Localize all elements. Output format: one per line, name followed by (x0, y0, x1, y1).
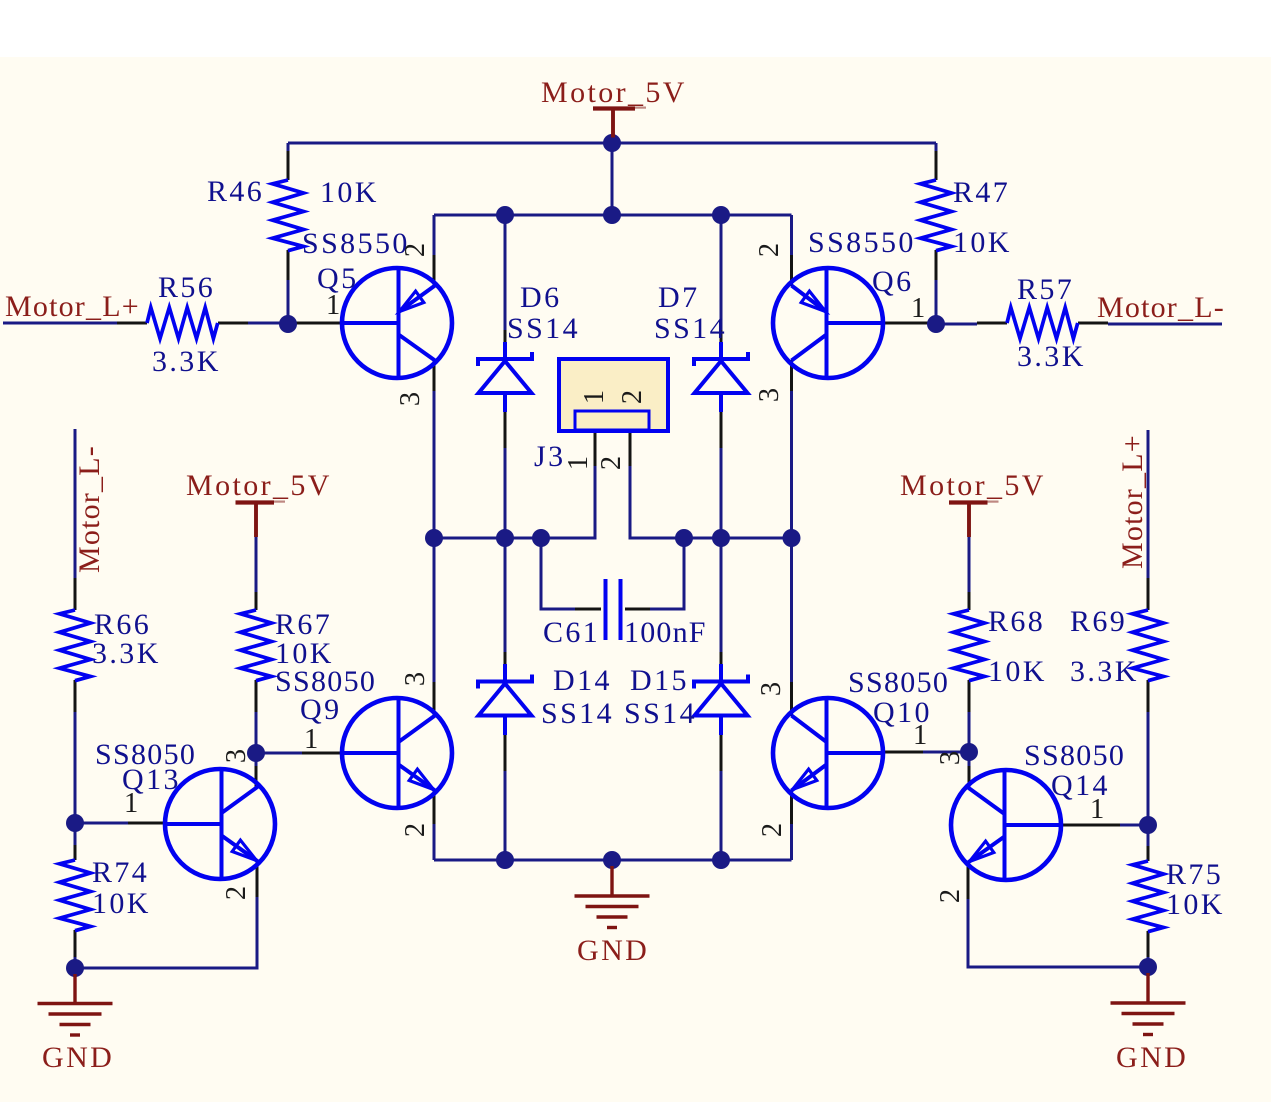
svg-text:3: 3 (754, 388, 785, 402)
wire R46 column bottom (287, 280, 290, 324)
svg-text:2: 2 (935, 889, 966, 903)
wire R67 to Q9 base (255, 712, 258, 753)
wire rail2 (434, 214, 792, 217)
resistor R69 3.3K (1133, 610, 1164, 681)
pin D7 top (720, 330, 723, 342)
resistor R67 10K (241, 610, 272, 681)
wire D14 bottom (504, 771, 507, 860)
wire R75 top (1147, 825, 1150, 846)
connector J3 (559, 359, 668, 431)
diode D6 SS14 (478, 342, 532, 412)
svg-text:R57: R57 (1017, 273, 1074, 306)
pin R67 top (255, 592, 258, 610)
wire R67 column (255, 537, 258, 592)
svg-text:D7: D7 (658, 281, 699, 314)
node top rail / 5V (603, 134, 621, 152)
wire R56 to Q5 base (248, 322, 296, 325)
resistor R66 3.3K (60, 610, 91, 681)
pin R56 right (218, 322, 248, 325)
wire C61 left riser (541, 538, 575, 609)
svg-text:SS14: SS14 (654, 312, 727, 345)
wire D14 top (504, 538, 507, 652)
node Q5 base (279, 315, 297, 333)
node Q9 base (247, 744, 265, 762)
pin Q13 collector (255, 766, 258, 787)
pin R46 top (287, 151, 290, 180)
svg-text:D14: D14 (553, 664, 612, 697)
transistor Q14 SS8050 NPN (951, 770, 1061, 880)
svg-text:J3: J3 (534, 440, 565, 473)
wire R47 column bottom (935, 280, 938, 324)
node rail3 C61R (675, 529, 693, 547)
node rail2 center (603, 206, 621, 224)
diode D14 SS14 (478, 664, 532, 735)
node bottom rail GND (603, 851, 621, 869)
svg-text:Q6: Q6 (872, 265, 913, 298)
pin R47 top (935, 151, 938, 180)
wire Q5 collector down (433, 391, 436, 538)
svg-text:3.3K: 3.3K (152, 345, 221, 378)
pin R75 top (1147, 846, 1150, 861)
wire D15 bottom (720, 771, 723, 860)
svg-text:1: 1 (304, 724, 318, 755)
wire D6 bottom (504, 448, 507, 538)
resistor R68 10K (954, 610, 985, 681)
svg-text:R56: R56 (158, 271, 215, 304)
capacitor C61 100nF (606, 579, 621, 640)
pin R47 bottom (935, 250, 938, 280)
DIODES (478, 342, 748, 735)
pin D6 bottom (504, 412, 507, 448)
svg-text:2: 2 (757, 823, 788, 837)
node rail3 C61L (532, 529, 550, 547)
wire Motor_L- stub (1108, 323, 1222, 326)
svg-text:100nF: 100nF (624, 616, 707, 649)
pin R56 left (117, 322, 147, 325)
wire R66 to Q13 base (74, 712, 77, 823)
transistor Q9 SS8050 NPN (342, 698, 452, 808)
wire R74 top (74, 823, 77, 845)
wire R75 bottom (1147, 957, 1150, 967)
pin Q5 base (296, 322, 342, 325)
svg-text:Q9: Q9 (300, 693, 341, 726)
RESISTORS (blue zigzags) (60, 180, 1164, 932)
pin Q14 collector (968, 766, 971, 787)
svg-text:SS14: SS14 (507, 312, 580, 345)
pin Q6 base (883, 322, 936, 325)
node R74 GND (66, 959, 84, 977)
wire top rail 5V (288, 142, 936, 145)
ground GND left (38, 974, 113, 1035)
wire Q9 emitter down (433, 824, 436, 860)
pin R46 bottom (287, 250, 290, 280)
pin Q13 emitter (256, 861, 259, 897)
ground GND right (1111, 973, 1186, 1035)
svg-text:R68: R68 (988, 605, 1045, 638)
svg-text:GND: GND (42, 1041, 114, 1074)
wire Q14 emitter down (968, 899, 1148, 967)
svg-text:SS14: SS14 (541, 697, 614, 730)
svg-text:Motor_5V: Motor_5V (541, 76, 687, 109)
node rail3 D6 (496, 529, 514, 547)
pin R74 bottom (74, 930, 77, 957)
svg-text:3.3K: 3.3K (1017, 340, 1086, 373)
svg-text:3: 3 (221, 749, 252, 763)
wire R47 column top (935, 143, 938, 151)
wire J3 pin2 down (630, 466, 792, 538)
svg-text:1: 1 (911, 293, 925, 324)
svg-text:2: 2 (617, 390, 648, 404)
pin R66 top (74, 578, 77, 610)
pin D15 bottom (720, 735, 723, 771)
node rail3 Q6col (783, 529, 801, 547)
wire Q13 collector up (255, 753, 258, 766)
pin R66 bottom (74, 680, 77, 712)
node Q14 base (1139, 816, 1157, 834)
node Q13 base (66, 814, 84, 832)
pin R69 top (1147, 578, 1150, 610)
wire bottom rail (434, 859, 792, 862)
pin R75 bottom (1147, 931, 1150, 957)
power Motor_5V top bar (593, 108, 646, 138)
svg-text:10K: 10K (1166, 888, 1225, 921)
svg-text:SS8550: SS8550 (808, 226, 916, 259)
wire Q14 collector up (968, 752, 971, 766)
power Motor_5V right bar (949, 502, 999, 537)
pin D14 top (504, 652, 507, 664)
svg-text:C61: C61 (543, 616, 600, 649)
pin R68 bottom (968, 680, 971, 712)
wire Q14 base (1120, 824, 1148, 827)
svg-text:SS8050: SS8050 (1024, 739, 1125, 772)
pin D15 top (720, 652, 723, 664)
pin R67 bottom (255, 680, 258, 712)
pin Q10 base (883, 751, 923, 754)
diode D7 SS14 (694, 342, 748, 412)
wire R69 to Q14 base (1147, 712, 1150, 825)
svg-text:Motor_5V: Motor_5V (186, 469, 332, 502)
node bottom rail D14 (496, 851, 514, 869)
white top band (0, 0, 1271, 57)
pin C61 left (575, 608, 601, 611)
svg-text:1: 1 (326, 290, 340, 321)
svg-text:10K: 10K (953, 226, 1012, 259)
wire R46 column top (287, 143, 290, 151)
svg-text:Motor_L-: Motor_L- (1097, 291, 1225, 324)
pin Q10 emitter (790, 790, 793, 824)
pin Q6 collector (790, 360, 793, 391)
node rail3 D7 (712, 529, 730, 547)
svg-text:SS8050: SS8050 (848, 666, 949, 699)
svg-text:SS8550: SS8550 (302, 227, 410, 260)
svg-text:3: 3 (935, 751, 966, 765)
wire D6 top (504, 215, 507, 330)
svg-text:D15: D15 (630, 664, 689, 697)
svg-text:Motor_L+: Motor_L+ (1116, 434, 1149, 569)
wire Q9 base (256, 752, 302, 755)
pin D6 top (504, 330, 507, 342)
node rail3 Q5col (425, 529, 443, 547)
svg-text:R46: R46 (207, 175, 264, 208)
pin Q13 base (128, 822, 165, 825)
svg-text:10K: 10K (988, 655, 1047, 688)
node bottom rail D15 (712, 851, 730, 869)
svg-text:R47: R47 (953, 176, 1010, 209)
wire D7 top (720, 215, 723, 330)
wire Q13 emitter down (75, 897, 257, 968)
pin J3-1 (594, 431, 597, 466)
svg-text:Motor_L-: Motor_L- (73, 445, 106, 573)
wire R74 bottom (74, 957, 77, 968)
wire Motor_5V drop (611, 143, 614, 215)
svg-text:R69: R69 (1070, 605, 1127, 638)
node rail2 D6 (496, 206, 514, 224)
wire Q10 collector up (790, 538, 793, 682)
wire Q6 base to junction (936, 323, 977, 326)
wire C61 right riser (650, 538, 684, 609)
pin D7 bottom (720, 412, 723, 448)
svg-text:Motor_5V: Motor_5V (900, 469, 1046, 502)
svg-text:GND: GND (1116, 1041, 1188, 1074)
pin Q14 emitter (967, 862, 970, 899)
svg-text:1: 1 (1090, 794, 1104, 825)
svg-text:3: 3 (756, 682, 787, 696)
node rail2 D7 (712, 206, 730, 224)
svg-text:2: 2 (400, 243, 431, 257)
svg-text:3.3K: 3.3K (92, 637, 161, 670)
node R75 GND (1139, 958, 1157, 976)
wire Q9 collector up (433, 538, 436, 682)
wire Q10 emitter down (790, 824, 793, 860)
svg-text:3: 3 (395, 392, 426, 406)
pin R69 bottom (1147, 680, 1150, 712)
svg-text:1: 1 (124, 788, 138, 819)
node Q6 base (927, 315, 945, 333)
pin C61 right (625, 608, 650, 611)
wire Q5 emitter up (433, 215, 436, 255)
wire Q6 collector down (790, 391, 793, 538)
svg-text:1: 1 (563, 456, 594, 470)
pin Q6 emitter (790, 255, 793, 286)
pin Q5 collector (433, 360, 436, 391)
svg-text:3.3K: 3.3K (1070, 655, 1139, 688)
resistor R75 10K (1133, 861, 1164, 932)
resistor R47 10K (921, 180, 952, 251)
svg-text:2: 2 (221, 886, 252, 900)
transistor Q6 SS8550 PNP (773, 268, 883, 378)
svg-text:2: 2 (400, 823, 431, 837)
resistor R56 3.3K (147, 308, 218, 339)
pin R57 left (977, 322, 1007, 325)
svg-text:R74: R74 (92, 856, 149, 889)
wire D15 top (720, 538, 723, 652)
pin J3-2 (629, 431, 632, 466)
node Q10 base (960, 743, 978, 761)
pin R74 top (74, 845, 77, 860)
svg-text:Motor_L+: Motor_L+ (5, 290, 140, 323)
WIRES-NAVY (3, 143, 1222, 968)
wire J3 pin1 down (434, 466, 595, 538)
diode D15 SS14 (694, 664, 748, 735)
wire Motor_L- column (74, 429, 77, 578)
wire Motor_L+ stub (3, 322, 117, 325)
transistor Q13 SS8050 NPN (165, 769, 275, 879)
wire D7 bottom (720, 448, 723, 538)
svg-text:1: 1 (579, 390, 610, 404)
svg-text:GND: GND (577, 934, 649, 967)
pin Q14 base (1061, 824, 1120, 827)
wire Motor_L+ column (1147, 430, 1150, 578)
wire Q13 base (75, 822, 128, 825)
pin Q9 base (302, 752, 342, 755)
pin D14 bottom (504, 735, 507, 771)
resistor R57 3.3K (1007, 308, 1078, 339)
transistor Q5 SS8550 PNP (342, 268, 452, 378)
power Motor_5V left bar (236, 502, 286, 537)
wire R68 column (968, 537, 971, 592)
svg-text:2: 2 (754, 243, 785, 257)
ground GND center (575, 866, 650, 928)
svg-text:D6: D6 (520, 281, 561, 314)
TRANSISTORS (165, 268, 1061, 880)
wire Q6 emitter up (790, 215, 793, 255)
svg-text:2: 2 (596, 456, 627, 470)
wire R68 to Q10 base (968, 712, 971, 752)
resistor R46 10K (273, 180, 304, 251)
PINS-BLACK (75, 151, 1148, 957)
pin Q5 emitter (433, 255, 436, 286)
POWER PORTS (dark red) (38, 108, 1186, 1035)
svg-text:1: 1 (913, 720, 927, 751)
svg-text:3: 3 (400, 672, 431, 686)
pin Q9 emitter (433, 790, 436, 824)
svg-text:10K: 10K (320, 176, 379, 209)
transistor Q10 SS8050 NPN (773, 698, 883, 808)
svg-text:10K: 10K (92, 887, 151, 920)
pin R68 top (968, 592, 971, 610)
pin Q10 collector (790, 682, 793, 716)
pin R57 right (1078, 322, 1108, 325)
resistor R74 10K (60, 860, 91, 931)
wire Q10 base (923, 751, 969, 754)
svg-text:SS14: SS14 (624, 697, 697, 730)
pin Q9 collector (433, 682, 436, 716)
svg-text:R75: R75 (1166, 858, 1223, 891)
